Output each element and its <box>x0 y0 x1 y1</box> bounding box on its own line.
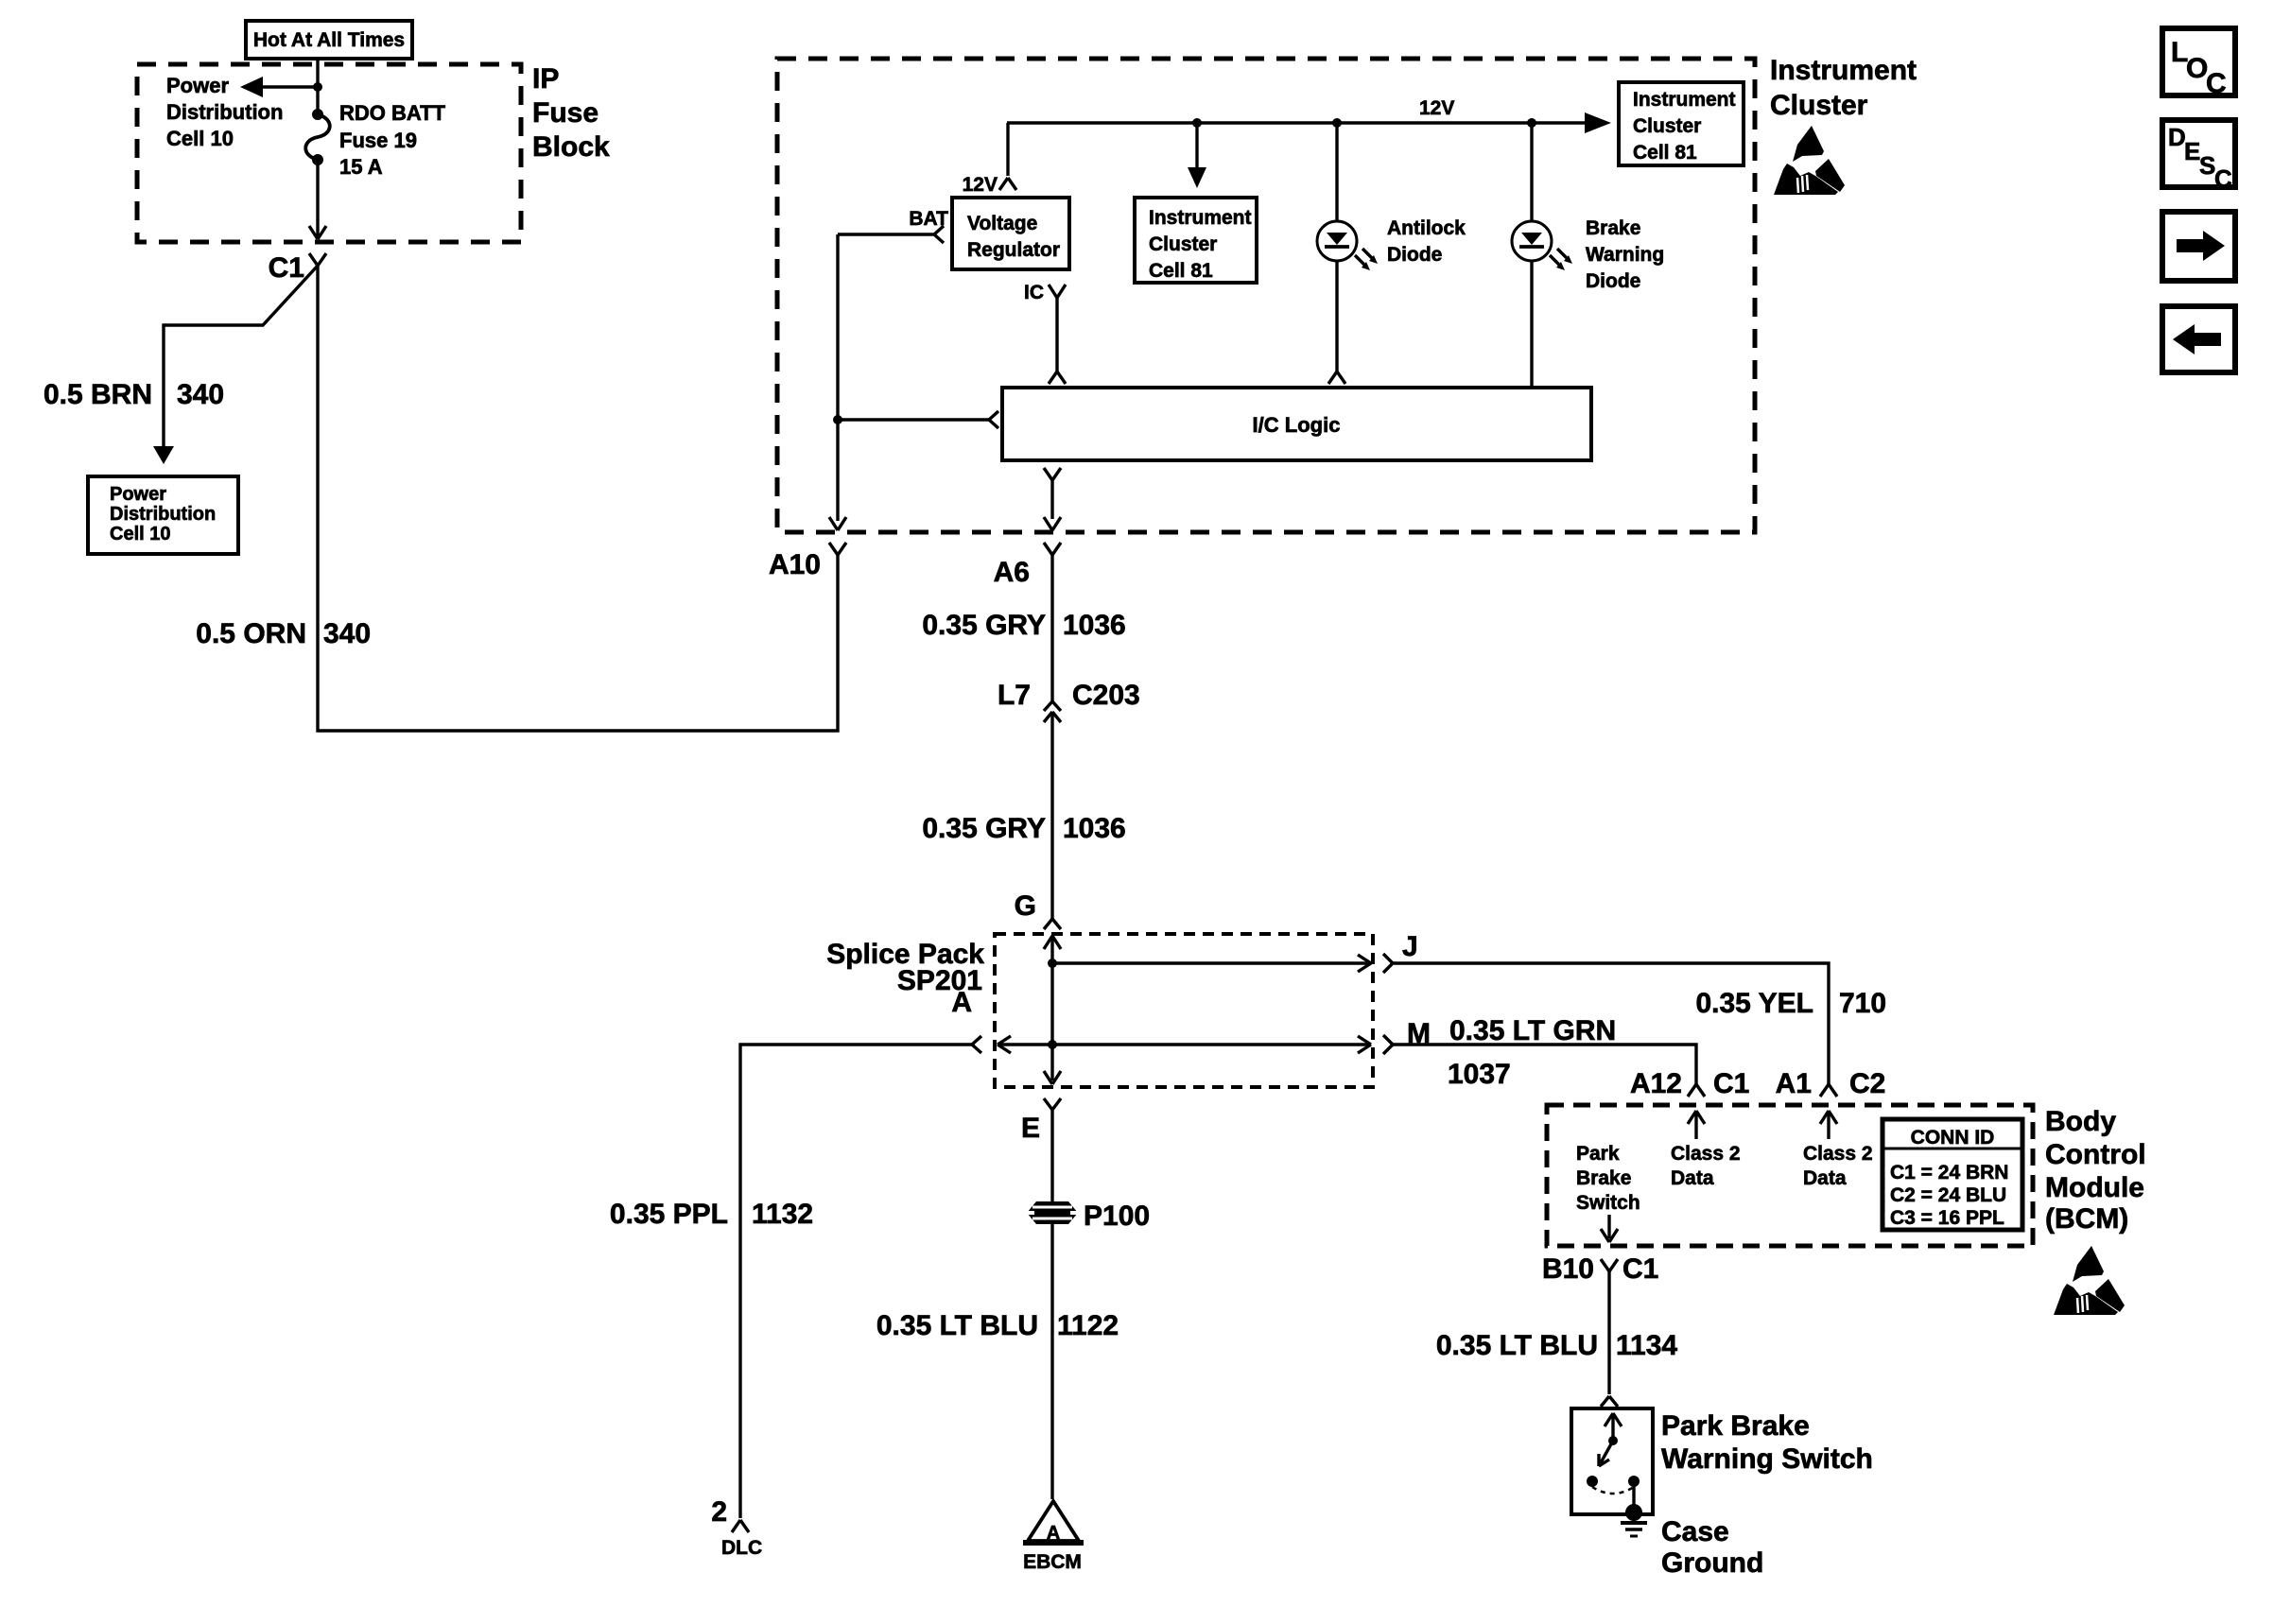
splice pack wire A to M row <box>998 1043 1369 1045</box>
wire fuse to C1 <box>316 160 319 236</box>
DESC icon box <box>2162 120 2235 193</box>
connector fork J (right of splice pack) <box>1383 954 1393 973</box>
junction dot brake warning branch <box>1527 118 1536 128</box>
svg-text:Diode: Diode <box>1387 244 1442 266</box>
svg-text:IP: IP <box>532 63 559 95</box>
svg-text:Hot At All Times: Hot At All Times <box>253 29 405 51</box>
connector fork A6 <box>1044 543 1061 555</box>
antilock diode LED symbol <box>1317 221 1378 270</box>
connector fork E <box>1044 1098 1061 1110</box>
svg-text:Warning Switch: Warning Switch <box>1661 1443 1873 1475</box>
wire E from splice pack <box>1050 1110 1053 1499</box>
wire A to DLC <box>740 1045 972 1518</box>
svg-text:C: C <box>2206 68 2227 99</box>
svg-text:Park: Park <box>1576 1143 1620 1165</box>
svg-text:Module: Module <box>2045 1172 2144 1203</box>
right arrow icon box <box>2162 212 2235 281</box>
wire 0.5 ORN from C1 down and over to A10 <box>318 266 838 731</box>
label RDO BATT Fuse 19 15 A <box>339 101 446 179</box>
Instrument Cluster Cell 81 box (top right) <box>1619 82 1744 165</box>
svg-text:Cell 10: Cell 10 <box>166 127 234 150</box>
LOC icon box <box>2162 28 2235 99</box>
wire B10 to park brake warning switch <box>1607 1271 1610 1394</box>
svg-text:Cell 81: Cell 81 <box>1149 260 1213 282</box>
open arrowhead down at E exit <box>1044 1071 1061 1084</box>
svg-text:1037: 1037 <box>1448 1059 1511 1090</box>
svg-text:Warning: Warning <box>1586 244 1664 266</box>
svg-text:Control: Control <box>2045 1139 2146 1170</box>
svg-text:EBCM: EBCM <box>1023 1551 1082 1573</box>
svg-text:Cell 81: Cell 81 <box>1633 142 1697 164</box>
wire BAT down to A10 exit <box>836 234 839 521</box>
svg-text:O: O <box>2186 53 2208 84</box>
svg-text:0.35 GRY: 0.35 GRY <box>922 813 1046 844</box>
open arrowhead down at cluster edge (A10) <box>829 517 846 530</box>
junction dot at I/C Logic branch <box>833 415 842 424</box>
svg-text:Fuse 19: Fuse 19 <box>339 129 417 152</box>
junction dot <box>313 82 322 92</box>
label Case Ground <box>1661 1516 1763 1579</box>
I/C Logic box <box>1002 388 1591 460</box>
svg-text:C1: C1 <box>1713 1068 1749 1099</box>
Hot At All Times box <box>246 21 412 59</box>
svg-text:Distribution: Distribution <box>110 504 216 525</box>
svg-text:1122: 1122 <box>1057 1310 1119 1341</box>
left arrow icon box <box>2162 306 2235 372</box>
IP Fuse Block dashed box <box>137 64 521 242</box>
svg-text:Brake: Brake <box>1576 1167 1631 1189</box>
label IP Fuse Block <box>532 63 610 163</box>
svg-text:0.5 BRN: 0.5 BRN <box>43 379 152 410</box>
connector fork A12 <box>1688 1084 1705 1097</box>
label Splice Pack SP201 <box>826 939 984 996</box>
svg-text:A1: A1 <box>1776 1068 1812 1099</box>
BCM pin arrow A1 (Class 2 Data) <box>1820 1111 1837 1139</box>
svg-text:E: E <box>1021 1113 1040 1144</box>
connector C1 fork <box>309 253 326 266</box>
open arrowhead down at fuse block edge <box>309 226 326 239</box>
svg-text:IC: IC <box>1024 282 1044 303</box>
svg-text:1036: 1036 <box>1063 610 1126 641</box>
wire 12V drop to Voltage Regulator <box>1006 123 1009 176</box>
svg-text:Body: Body <box>2045 1106 2116 1137</box>
splice pack internal vertical wire <box>1050 937 1053 1080</box>
wire antilock diode branch <box>1335 123 1338 222</box>
svg-text:Switch: Switch <box>1576 1192 1640 1214</box>
wire brake warning diode to I/C Logic <box>1530 261 1533 388</box>
connector fork A1 <box>1820 1084 1837 1097</box>
svg-text:15 A: 15 A <box>339 155 383 179</box>
svg-text:0.35 LT GRN: 0.35 LT GRN <box>1449 1015 1616 1046</box>
label Body Control Module (BCM) <box>2045 1106 2146 1235</box>
svg-text:340: 340 <box>323 618 371 649</box>
Voltage Regulator box <box>952 198 1069 269</box>
connector fork IC under Voltage Regulator <box>1049 285 1066 298</box>
svg-text:A: A <box>1047 1523 1060 1544</box>
svg-text:S: S <box>2199 151 2215 180</box>
junction dot antilock branch <box>1332 118 1342 128</box>
label Power Distribution Cell 10 (in fuse block) <box>166 74 283 150</box>
svg-text:C1: C1 <box>1622 1253 1658 1285</box>
svg-text:Instrument: Instrument <box>1149 207 1252 229</box>
svg-text:Instrument: Instrument <box>1633 89 1736 111</box>
case ground symbol <box>1621 1504 1647 1536</box>
open arrowhead down at cluster edge (A6) <box>1044 517 1061 530</box>
wire A6 to splice pack G <box>1050 555 1053 701</box>
svg-text:2: 2 <box>711 1496 727 1528</box>
svg-text:Cluster: Cluster <box>1633 115 1701 137</box>
Power Distribution Cell 10 box <box>88 476 238 554</box>
svg-text:Regulator: Regulator <box>967 239 1060 261</box>
junction dot J row <box>1048 959 1057 968</box>
Instrument Cluster dashed box <box>777 59 1755 532</box>
svg-text:1132: 1132 <box>752 1199 813 1230</box>
svg-text:A6: A6 <box>994 557 1030 588</box>
label Antilock Diode <box>1387 217 1466 266</box>
connector fork at park brake warning switch <box>1601 1396 1618 1407</box>
svg-text:Distribution: Distribution <box>166 100 283 124</box>
svg-text:0.35 YEL: 0.35 YEL <box>1695 988 1813 1019</box>
svg-text:RDO BATT: RDO BATT <box>339 101 446 125</box>
park brake switch internal contacts <box>1587 1413 1640 1508</box>
svg-text:Fuse: Fuse <box>532 97 599 129</box>
svg-text:12V: 12V <box>963 174 998 196</box>
wire to Power Distribution arrow <box>261 85 318 88</box>
Park Brake Warning Switch box <box>1571 1408 1653 1514</box>
label Instrument Cluster <box>1770 55 1917 121</box>
junction dot <box>1192 118 1202 128</box>
12V rail wire <box>1007 121 1587 124</box>
svg-text:Voltage: Voltage <box>967 213 1037 234</box>
open arrowhead left at A entry <box>998 1036 1011 1053</box>
svg-text:D: D <box>2168 123 2186 151</box>
EBCM ground triangle <box>1023 1501 1084 1544</box>
svg-text:(BCM): (BCM) <box>2045 1203 2128 1235</box>
wire 12V to Instrument Cluster Cell 81 middle box <box>1195 123 1198 170</box>
connector fork A (left of splice pack) <box>972 1036 981 1053</box>
svg-text:DLC: DLC <box>721 1537 762 1559</box>
svg-text:E: E <box>2184 137 2200 165</box>
svg-text:0.5 ORN: 0.5 ORN <box>196 618 306 649</box>
BCM pin arrow A12 (Class 2 Data) <box>1688 1111 1705 1139</box>
svg-text:Ground: Ground <box>1661 1547 1763 1579</box>
svg-text:Data: Data <box>1803 1167 1847 1189</box>
svg-text:C1: C1 <box>269 252 304 284</box>
svg-text:A: A <box>951 987 972 1018</box>
open arrowhead right at J exit <box>1358 955 1371 972</box>
svg-text:CONN ID: CONN ID <box>1911 1127 1995 1149</box>
wire antilock diode to I/C Logic <box>1335 261 1338 371</box>
svg-text:C1 = 24 BRN: C1 = 24 BRN <box>1890 1162 2008 1183</box>
connector fork into I/C Logic top at antilock <box>1328 371 1345 384</box>
splice pack wire to J <box>1052 961 1369 964</box>
svg-text:Diode: Diode <box>1586 270 1640 292</box>
label Class 2 Data (A12) <box>1671 1143 1741 1189</box>
junction dot M row <box>1048 1040 1057 1049</box>
arrow into Instrument Cluster Cell 81 <box>1585 112 1611 133</box>
wire IC to I/C Logic <box>1055 298 1058 371</box>
park brake switch output arrow <box>1601 1215 1618 1242</box>
svg-text:A12: A12 <box>1630 1068 1682 1099</box>
svg-text:Cluster: Cluster <box>1770 90 1868 121</box>
P100 grommet symbol <box>1027 1201 1078 1224</box>
open arrowhead up to G <box>1044 936 1061 949</box>
svg-text:J: J <box>1402 931 1418 962</box>
connector fork at I/C Logic left <box>989 411 998 428</box>
svg-text:Antilock: Antilock <box>1387 217 1466 239</box>
svg-text:L7: L7 <box>998 680 1031 711</box>
CONN ID table <box>1883 1119 2022 1230</box>
in-line connector C203 double chevron <box>1044 701 1061 722</box>
svg-text:Instrument: Instrument <box>1770 55 1917 86</box>
wire M to BCM A12 <box>1393 1045 1696 1084</box>
connector fork A10 <box>829 543 846 555</box>
svg-text:710: 710 <box>1839 988 1886 1019</box>
svg-text:P100: P100 <box>1084 1201 1150 1232</box>
wire brake warning diode branch <box>1530 123 1533 222</box>
connector fork DLC <box>732 1520 749 1532</box>
svg-text:340: 340 <box>177 379 224 410</box>
svg-text:0.35 GRY: 0.35 GRY <box>922 610 1046 641</box>
svg-text:12V: 12V <box>1419 97 1454 119</box>
Splice Pack SP201 dashed box <box>995 934 1373 1087</box>
svg-text:G: G <box>1015 890 1036 922</box>
svg-text:Power: Power <box>110 484 166 505</box>
svg-text:1134: 1134 <box>1616 1330 1677 1361</box>
connector fork at Voltage Regulator 12V pin <box>999 178 1016 190</box>
connector fork into I/C Logic top <box>1049 371 1066 384</box>
arrowhead into Power Distribution box <box>153 446 174 464</box>
wire BAT stub <box>838 233 934 235</box>
svg-text:0.35 PPL: 0.35 PPL <box>610 1199 728 1230</box>
svg-text:I/C Logic: I/C Logic <box>1253 413 1341 437</box>
Body Control Module dashed box <box>1547 1105 2033 1246</box>
connector fork B10 <box>1601 1259 1618 1271</box>
label Park Brake Warning Switch <box>1661 1410 1873 1475</box>
svg-text:C3 = 16 PPL: C3 = 16 PPL <box>1890 1207 2004 1229</box>
arrow to Power Distribution Cell 10 <box>240 77 263 97</box>
wire C1 branch to Power Distribution Cell 10 <box>164 266 318 448</box>
svg-text:0.35 LT BLU: 0.35 LT BLU <box>876 1310 1038 1341</box>
open arrowhead right at M exit <box>1358 1036 1371 1053</box>
svg-text:Block: Block <box>532 131 610 163</box>
arrowhead into middle Cell 81 box <box>1188 167 1206 188</box>
svg-text:Case: Case <box>1661 1516 1729 1547</box>
connector fork BAT <box>934 226 944 243</box>
ESD symbol BCM <box>2054 1246 2125 1315</box>
svg-text:C2 = 24 BLU: C2 = 24 BLU <box>1890 1184 2006 1206</box>
wire I/C Logic to A6 exit <box>1050 480 1053 519</box>
svg-text:Class 2: Class 2 <box>1671 1143 1741 1165</box>
svg-text:B10: B10 <box>1542 1253 1594 1285</box>
connector fork under I/C Logic <box>1044 468 1061 480</box>
connector fork G <box>1044 919 1061 929</box>
svg-text:Park Brake: Park Brake <box>1661 1410 1810 1442</box>
svg-text:Brake: Brake <box>1586 217 1640 239</box>
fuse RDO BATT Fuse 19 15 A <box>305 109 330 165</box>
wire from Hot At All Times into fuse block <box>316 59 319 114</box>
svg-text:Data: Data <box>1671 1167 1714 1189</box>
svg-text:C2: C2 <box>1849 1068 1885 1099</box>
svg-text:Cell 10: Cell 10 <box>110 524 170 544</box>
svg-text:0.35 LT BLU: 0.35 LT BLU <box>1436 1330 1598 1361</box>
svg-text:C203: C203 <box>1072 680 1140 711</box>
ESD symbol instrument cluster <box>1774 126 1845 195</box>
svg-text:1036: 1036 <box>1063 813 1126 844</box>
brake warning diode LED symbol <box>1512 221 1572 270</box>
Instrument Cluster Cell 81 box (middle) <box>1135 198 1257 283</box>
wire J to BCM A1 <box>1393 963 1829 1084</box>
label Brake Warning Diode <box>1586 217 1664 292</box>
wire branch to I/C Logic <box>838 418 989 421</box>
connector fork M (right of splice pack) <box>1383 1035 1393 1054</box>
svg-text:A10: A10 <box>769 549 821 580</box>
label Park Brake Switch <box>1576 1143 1640 1214</box>
svg-text:Class 2: Class 2 <box>1803 1143 1873 1165</box>
svg-text:Cluster: Cluster <box>1149 233 1217 255</box>
svg-text:Power: Power <box>166 74 229 97</box>
svg-text:C: C <box>2214 164 2232 193</box>
label Class 2 Data (A1) <box>1803 1143 1873 1189</box>
